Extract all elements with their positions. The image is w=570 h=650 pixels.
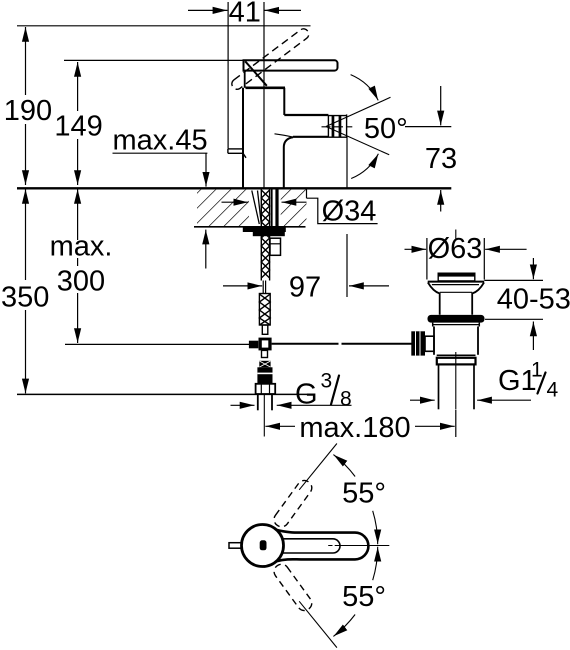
svg-text:190: 190 xyxy=(4,95,52,127)
svg-text:55°: 55° xyxy=(342,581,386,613)
svg-text:max.: max. xyxy=(50,231,113,263)
svg-text:max.180: max.180 xyxy=(299,412,410,444)
svg-text:3: 3 xyxy=(321,370,333,393)
svg-text:149: 149 xyxy=(54,111,102,143)
svg-text:Ø34: Ø34 xyxy=(322,196,377,228)
svg-text:4: 4 xyxy=(547,379,559,402)
svg-text:55°: 55° xyxy=(342,478,386,510)
svg-text:350: 350 xyxy=(1,281,49,313)
svg-text:G: G xyxy=(295,379,318,411)
svg-text:50°: 50° xyxy=(364,113,408,145)
svg-text:1: 1 xyxy=(531,359,543,382)
svg-text:Ø63: Ø63 xyxy=(428,233,483,265)
svg-text:8: 8 xyxy=(340,388,352,411)
svg-text:73: 73 xyxy=(425,143,457,175)
svg-text:300: 300 xyxy=(57,266,105,298)
svg-text:40-53: 40-53 xyxy=(497,283,570,315)
svg-text:97: 97 xyxy=(289,272,321,304)
svg-text:max.45: max.45 xyxy=(113,125,208,157)
svg-text:41: 41 xyxy=(229,0,261,28)
